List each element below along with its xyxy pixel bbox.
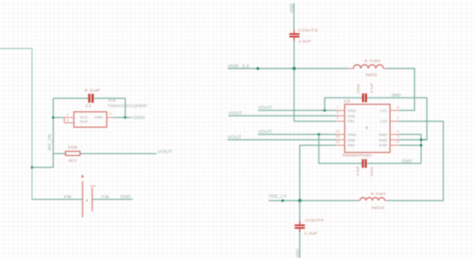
wire GND to COUT3 <box>293 3 295 30</box>
junction GND bus lower <box>420 144 423 147</box>
wire FB1 to VDD_3.3 <box>294 69 336 122</box>
svg-text:GND: GND <box>133 115 145 120</box>
svg-text:7: 7 <box>337 105 339 109</box>
junction at left vertical <box>31 166 34 169</box>
wire CIN4 to GND bus <box>367 162 421 164</box>
wire COUT3 to rail <box>293 41 295 69</box>
wire VDD_1.8 to COUT4 <box>299 201 301 221</box>
svg-text:FB2: FB2 <box>348 143 355 148</box>
svg-text:2.1uF: 2.1uF <box>84 87 101 92</box>
svg-text:CIN4: CIN4 <box>369 166 374 176</box>
svg-text:3: 3 <box>67 119 69 123</box>
wire VOUT stub to EN2 <box>228 139 337 141</box>
battery B1 plus plate <box>82 181 84 217</box>
wire VOUT stub to VIN1 <box>258 109 336 111</box>
svg-text:EN2: EN2 <box>348 137 356 142</box>
svg-text:4.7uF: 4.7uF <box>355 165 360 176</box>
svg-text:3: 3 <box>397 135 399 139</box>
capacitor COUT3 <box>293 30 295 33</box>
capacitor CIN3 plates <box>362 93 364 102</box>
svg-text:12: 12 <box>336 140 340 144</box>
wire GND pin row5 to bus <box>399 139 427 141</box>
svg-text:VDD_3.3: VDD_3.3 <box>228 63 250 68</box>
svg-text:COUT4: COUT4 <box>305 217 325 222</box>
svg-text:GND: GND <box>402 159 413 164</box>
junction VIN1 <box>323 109 326 112</box>
svg-text:15: 15 <box>336 135 340 139</box>
svg-text:FB: FB <box>64 194 72 199</box>
svg-text:45V_ON: 45V_ON <box>47 134 52 151</box>
wire VDD_1.8 rail <box>269 200 359 202</box>
svg-text:1: 1 <box>67 113 69 117</box>
pin stubs left <box>336 109 345 111</box>
svg-text:IC4: IC4 <box>108 98 116 103</box>
capacitor C1 plates <box>88 94 90 103</box>
wire EXP pin to bus <box>399 144 421 146</box>
svg-text:9: 9 <box>397 129 399 133</box>
svg-text:ND3: ND3 <box>372 205 385 210</box>
wire R7 to VOUT stub <box>80 153 157 155</box>
svg-text:13: 13 <box>336 129 340 133</box>
svg-text:CIN3: CIN3 <box>355 83 360 93</box>
wire to resistor R7 <box>53 153 65 155</box>
capacitor COUT4 <box>299 221 301 225</box>
svg-text:8: 8 <box>397 105 399 109</box>
svg-text:17: 17 <box>396 140 400 144</box>
battery minus sign <box>90 185 96 187</box>
op-amp IC5 box <box>345 104 390 152</box>
junction label dot <box>281 199 284 202</box>
svg-text:EXP: EXP <box>379 143 387 148</box>
wire VOUT stub to VIN2 <box>258 133 336 135</box>
svg-text:GND: GND <box>295 249 300 258</box>
svg-text:VOUT: VOUT <box>258 105 272 110</box>
wire COUT4 to GND <box>299 232 301 258</box>
svg-text:VIN1: VIN1 <box>348 108 357 113</box>
wire 45V input from left edge down <box>0 49 32 200</box>
wire IC4 GND pin to junction <box>113 117 125 119</box>
pin stub 1 VCC <box>63 117 74 119</box>
origin cross <box>365 126 368 129</box>
wire to C1 left plate <box>53 97 88 99</box>
svg-text:LX1: LX1 <box>380 108 387 113</box>
pin stub 2 GND <box>107 117 114 119</box>
pin stubs right <box>390 109 399 111</box>
svg-text:2: 2 <box>110 112 112 116</box>
pin stub 3 OUT <box>64 122 74 124</box>
wire riser to VCC <box>32 98 53 167</box>
inductor ND3 <box>358 198 386 201</box>
junction GND node <box>124 116 127 119</box>
wire to IC4 pin 1 <box>53 117 63 119</box>
battery origin mark <box>86 200 88 202</box>
svg-text:GND: GND <box>94 115 103 120</box>
op IC4 regulator box <box>74 112 107 127</box>
wire battery negative feed <box>32 198 82 200</box>
wire GND pin row4 to bus <box>399 134 421 163</box>
svg-text:VIN2: VIN2 <box>348 132 357 137</box>
svg-text:GND: GND <box>120 194 130 199</box>
junction FB2/COUT4 <box>298 199 301 202</box>
svg-text:GND: GND <box>289 3 294 13</box>
svg-text:COUT3: COUT3 <box>298 28 319 33</box>
svg-text:GND: GND <box>392 93 401 98</box>
svg-text:VOUT: VOUT <box>228 111 242 116</box>
pin stub bridge <box>63 118 65 123</box>
svg-text:PAM2306AYPKEADJ: PAM2306AYPKEADJ <box>342 152 372 157</box>
capacitor CIN4 plates <box>362 159 364 168</box>
svg-text:1.0uF: 1.0uF <box>304 231 318 236</box>
junction GND bus upper <box>420 139 423 142</box>
svg-text:GND: GND <box>379 132 388 137</box>
svg-text:FMA09123D1CQDB2R: FMA09123D1CQDB2R <box>108 103 147 108</box>
battery minus plate <box>91 188 93 212</box>
wire FB2 to VDD_1.8 <box>300 145 336 200</box>
svg-text:GND: GND <box>379 137 388 142</box>
wire GND stub <box>125 117 132 119</box>
svg-text:LX2: LX2 <box>380 119 387 124</box>
svg-text:R7: R7 <box>69 158 78 163</box>
svg-text:VDD_1.8: VDD_1.8 <box>269 194 287 199</box>
svg-text:FB1: FB1 <box>348 119 355 124</box>
svg-text:OUT: OUT <box>80 119 89 124</box>
svg-text:4.7uF: 4.7uF <box>369 82 374 93</box>
wire C1 right plate to GND net <box>94 98 126 117</box>
wire ND3 to LX2 <box>386 121 443 200</box>
wire VIN1 to CIN3 <box>325 98 362 111</box>
svg-text:C1: C1 <box>85 103 92 108</box>
wire ND2 to LX1 <box>386 69 415 111</box>
wire VIN2 to CIN4 <box>319 134 362 163</box>
junction COUT3/FB1 <box>293 67 296 70</box>
wire VDD_3.3 rail <box>228 68 349 70</box>
svg-text:VOUT: VOUT <box>258 129 272 134</box>
svg-text:EN1: EN1 <box>348 113 356 118</box>
junction label dot <box>256 67 259 70</box>
wire CIN3 to GND bus <box>367 98 427 140</box>
wire VOUT stub to EN1 <box>228 115 336 117</box>
svg-text:2: 2 <box>397 116 399 120</box>
resistor R7 <box>66 151 81 155</box>
svg-text:4.7uH: 4.7uH <box>364 58 380 63</box>
svg-text:5: 5 <box>337 111 339 115</box>
junction VIN2 <box>318 133 321 136</box>
svg-text:4.7uH: 4.7uH <box>370 191 385 196</box>
battery plus sign <box>81 175 84 178</box>
svg-text:1.0uF: 1.0uF <box>298 39 312 44</box>
svg-text:VOUT: VOUT <box>158 149 173 154</box>
inductor ND2 <box>348 65 386 69</box>
svg-text:6: 6 <box>337 116 339 120</box>
wire battery positive to GND stub <box>92 198 133 200</box>
svg-text:IC5: IC5 <box>344 98 351 103</box>
junction VCC node <box>52 116 55 119</box>
svg-text:ND2: ND2 <box>366 72 379 77</box>
svg-text:10k: 10k <box>67 145 77 150</box>
svg-text:FB: FB <box>102 194 110 199</box>
svg-text:VOUT: VOUT <box>228 135 242 140</box>
